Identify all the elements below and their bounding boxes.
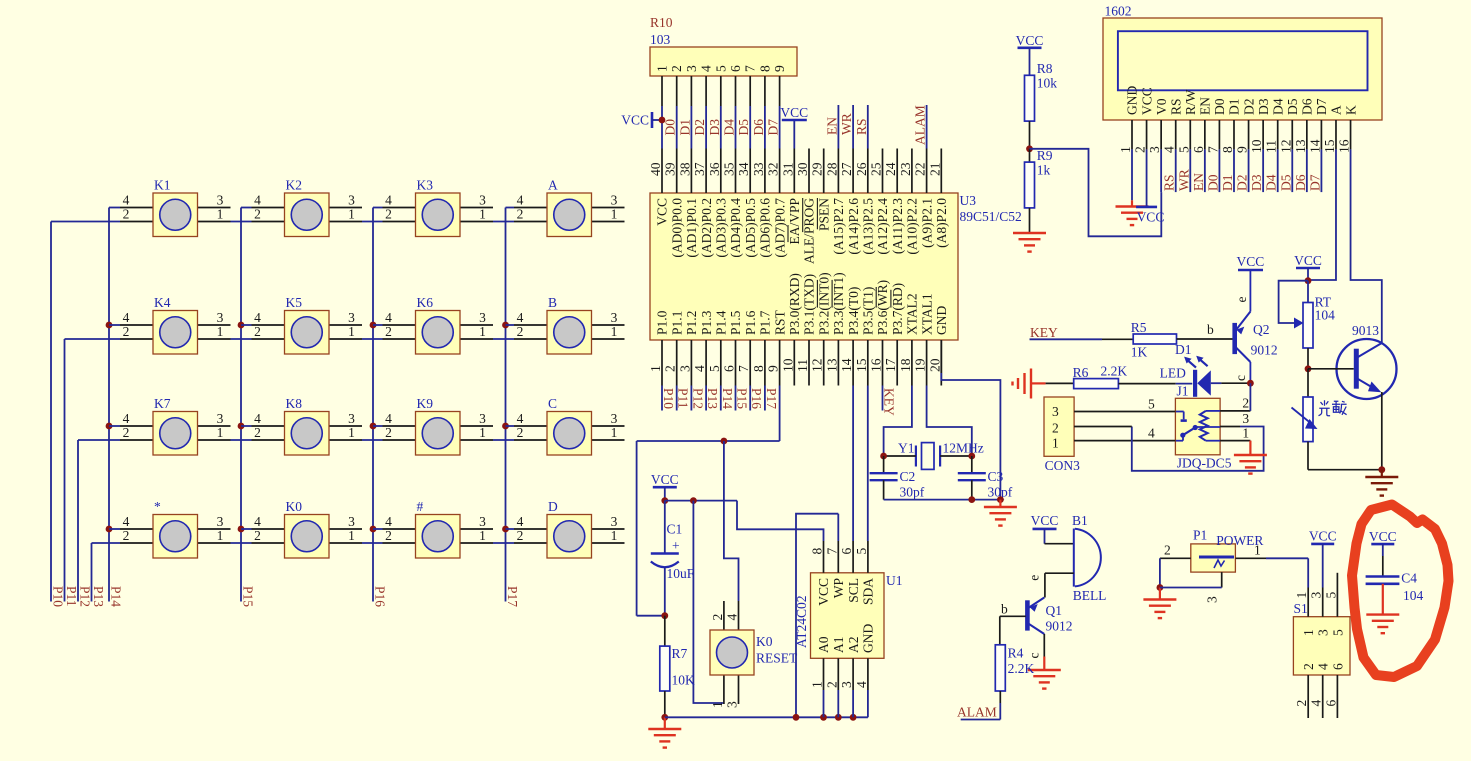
svg-text:S1: S1 xyxy=(1294,601,1308,616)
svg-text:B1: B1 xyxy=(1072,513,1088,528)
svg-text:2: 2 xyxy=(254,425,261,440)
svg-text:P1.4: P1.4 xyxy=(714,310,729,335)
svg-text:K9: K9 xyxy=(417,396,434,411)
svg-text:30pf: 30pf xyxy=(900,485,925,500)
resistor R9 1k xyxy=(1025,148,1053,233)
svg-text:1: 1 xyxy=(1254,543,1261,558)
wire net P14 at U3 pin5 xyxy=(720,386,722,411)
svg-text:D5: D5 xyxy=(736,119,751,136)
wire net P11 vertical xyxy=(64,339,66,602)
svg-text:D4: D4 xyxy=(722,119,737,136)
svg-text:4: 4 xyxy=(854,681,869,688)
wire net P12 vertical xyxy=(77,440,79,602)
U3 top pin 28 P2.7 xyxy=(824,149,846,255)
wire net D6 at 1602 pin13 xyxy=(1306,149,1308,192)
svg-text:D4: D4 xyxy=(1270,98,1285,115)
svg-text:1: 1 xyxy=(479,425,486,440)
svg-text:EN: EN xyxy=(824,117,839,135)
svg-text:3: 3 xyxy=(611,514,618,529)
power VCC (1602 pin2) xyxy=(1136,149,1164,224)
key button B row2 col4 xyxy=(506,295,625,354)
U1 pin 2 A1 xyxy=(824,637,846,691)
resistor R7 10K xyxy=(660,616,695,721)
svg-text:(A13)P2.5: (A13)P2.5 xyxy=(861,198,876,255)
svg-text:8: 8 xyxy=(1220,146,1235,153)
svg-text:D1: D1 xyxy=(1220,175,1235,192)
svg-text:26: 26 xyxy=(854,162,869,176)
U3 top pin 22 P2.1 xyxy=(913,149,935,248)
svg-text:25: 25 xyxy=(869,162,884,176)
wire P1 pin1 to S1 xyxy=(1235,543,1308,588)
relay J1 JDQ-DC5 xyxy=(1175,384,1231,471)
1602 pin 12 D5 xyxy=(1278,98,1300,153)
svg-text:31: 31 xyxy=(780,163,795,177)
wire XTAL2 to Y1 xyxy=(884,386,912,457)
svg-text:4: 4 xyxy=(254,514,261,529)
U3 bottom pin 7 xyxy=(736,310,758,385)
svg-text:(AD7)P0.7: (AD7)P0.7 xyxy=(772,198,787,258)
wire RST to K0 pin4 xyxy=(724,441,739,601)
svg-text:A2: A2 xyxy=(846,637,861,654)
svg-text:10: 10 xyxy=(1249,139,1264,153)
svg-text:4: 4 xyxy=(1162,146,1177,153)
capacitor C3 30pf xyxy=(958,456,1013,500)
1602 pin 4 RS xyxy=(1162,98,1184,153)
svg-text:(A14)P2.6: (A14)P2.6 xyxy=(846,198,861,255)
svg-text:89C51/C52: 89C51/C52 xyxy=(960,209,1022,224)
svg-text:2: 2 xyxy=(517,528,524,543)
svg-text:P3.0(RXD): P3.0(RXD) xyxy=(787,273,802,335)
wire net EN at U3 xyxy=(837,105,839,149)
svg-text:K: K xyxy=(1343,105,1358,115)
svg-text:37: 37 xyxy=(692,162,707,176)
svg-text:P11: P11 xyxy=(676,388,691,409)
svg-text:9: 9 xyxy=(766,365,781,372)
node D0 label xyxy=(663,119,678,136)
svg-text:RS: RS xyxy=(1168,98,1183,115)
svg-text:1: 1 xyxy=(348,425,355,440)
wire SCL U3 pin14 to U1 xyxy=(852,386,854,542)
wire VCC rail to K0/U1 xyxy=(665,497,824,703)
svg-text:5: 5 xyxy=(713,65,728,72)
svg-text:1: 1 xyxy=(1242,426,1249,441)
svg-text:D0: D0 xyxy=(1212,98,1227,115)
svg-text:4: 4 xyxy=(1148,426,1155,441)
wire net ALAM at U3 xyxy=(926,105,928,149)
svg-text:P13: P13 xyxy=(91,586,106,607)
node D1 label xyxy=(677,119,692,136)
svg-text:10K: 10K xyxy=(672,673,696,688)
power VCC (Q2) xyxy=(1237,254,1265,270)
svg-text:3: 3 xyxy=(217,411,224,426)
svg-text:R5: R5 xyxy=(1131,320,1147,335)
svg-text:P14: P14 xyxy=(109,586,124,607)
svg-text:WR: WR xyxy=(839,113,854,135)
svg-text:ALE/PROG: ALE/PROG xyxy=(802,198,817,264)
U3 bottom pin 17 xyxy=(883,283,905,386)
svg-text:b: b xyxy=(1001,602,1008,617)
svg-text:4: 4 xyxy=(385,310,392,325)
svg-text:P16: P16 xyxy=(373,586,388,607)
svg-text:1: 1 xyxy=(611,528,618,543)
svg-text:D0: D0 xyxy=(1205,174,1220,191)
svg-text:P1.5: P1.5 xyxy=(728,310,743,335)
node D5 label xyxy=(736,119,751,136)
svg-text:9012: 9012 xyxy=(1046,619,1073,634)
svg-text:c: c xyxy=(1026,653,1041,659)
wire net P11 at U3 pin2 xyxy=(676,386,678,411)
svg-text:2: 2 xyxy=(1301,663,1316,670)
svg-text:1: 1 xyxy=(611,324,618,339)
svg-text:P15: P15 xyxy=(735,388,750,409)
svg-text:10: 10 xyxy=(780,358,795,372)
svg-text:(AD3)P0.3: (AD3)P0.3 xyxy=(714,198,729,258)
svg-text:P17: P17 xyxy=(505,586,520,607)
svg-text:10k: 10k xyxy=(1037,76,1058,91)
resistor network R10 103 xyxy=(650,15,797,76)
1602 pin 2 VCC xyxy=(1133,87,1155,153)
svg-text:2: 2 xyxy=(1052,421,1059,436)
wire row3 net P12 xyxy=(78,439,625,441)
svg-text:3: 3 xyxy=(217,310,224,325)
svg-text:P1.1: P1.1 xyxy=(669,311,684,335)
svg-text:(AD5)P0.5: (AD5)P0.5 xyxy=(743,198,758,258)
svg-text:13: 13 xyxy=(1293,139,1308,153)
svg-text:VCC: VCC xyxy=(621,113,649,128)
svg-text:#: # xyxy=(417,499,424,514)
svg-text:4: 4 xyxy=(254,310,261,325)
wire D0 bus R10 pin2 to U3 xyxy=(676,76,678,149)
node P12 label (U3) xyxy=(690,388,705,409)
U3 bottom pin 2 xyxy=(663,311,685,386)
svg-text:2: 2 xyxy=(710,614,725,621)
svg-text:V0: V0 xyxy=(1154,98,1169,115)
svg-text:VCC: VCC xyxy=(1016,33,1044,48)
wire D7 bus R10 pin9 to U3 xyxy=(779,76,781,149)
node P13 label xyxy=(91,586,106,607)
svg-text:A1: A1 xyxy=(831,637,846,654)
svg-text:3: 3 xyxy=(611,193,618,208)
wire row1 net P10 xyxy=(51,221,625,223)
wire net WR at U3 xyxy=(852,105,854,149)
svg-text:12: 12 xyxy=(810,359,825,373)
switch P1 POWER xyxy=(1191,528,1264,573)
svg-text:3: 3 xyxy=(348,411,355,426)
svg-text:P3.4(T0): P3.4(T0) xyxy=(846,287,861,335)
svg-text:LED: LED xyxy=(1160,366,1186,381)
svg-text:A: A xyxy=(1329,105,1344,115)
svg-text:D5: D5 xyxy=(1285,98,1300,115)
node EN label (1602) xyxy=(1191,173,1206,191)
capacitor C2 30pf xyxy=(870,456,925,500)
svg-text:+: + xyxy=(672,538,680,553)
svg-text:K7: K7 xyxy=(154,396,171,411)
svg-text:20: 20 xyxy=(927,358,942,372)
svg-text:2: 2 xyxy=(123,528,130,543)
svg-text:11: 11 xyxy=(1264,140,1279,153)
svg-text:8: 8 xyxy=(810,548,825,555)
svg-text:GND: GND xyxy=(861,624,876,653)
svg-text:P10: P10 xyxy=(51,586,66,607)
IC U1 AT24C02 body xyxy=(794,573,903,659)
node RS label (1602) xyxy=(1162,174,1177,191)
svg-text:2: 2 xyxy=(385,324,392,339)
wire net P16 at U3 pin7 xyxy=(749,386,751,411)
svg-text:K8: K8 xyxy=(286,396,303,411)
U3 bottom pin 1 xyxy=(648,310,670,385)
node P17 label xyxy=(505,586,520,607)
svg-text:Q1: Q1 xyxy=(1046,603,1063,618)
svg-text:CON3: CON3 xyxy=(1045,458,1081,473)
svg-text:D5: D5 xyxy=(1278,174,1293,191)
U3 bottom pin 4 xyxy=(692,310,714,385)
svg-text:J1: J1 xyxy=(1177,384,1189,399)
svg-text:24: 24 xyxy=(883,162,898,176)
svg-text:3: 3 xyxy=(684,65,699,72)
svg-text:(A10)P2.2: (A10)P2.2 xyxy=(905,198,920,255)
svg-text:A0: A0 xyxy=(816,636,831,653)
svg-text:7: 7 xyxy=(736,365,751,372)
node D6 label (1602) xyxy=(1293,174,1308,191)
wire net P12 at U3 pin3 xyxy=(690,386,692,411)
wire CON3 pin1 to J1 pin4 xyxy=(1074,426,1175,441)
svg-text:P1.2: P1.2 xyxy=(684,311,699,335)
svg-text:3: 3 xyxy=(839,681,854,688)
svg-text:D7: D7 xyxy=(1314,98,1329,115)
svg-text:1K: 1K xyxy=(1131,345,1148,360)
1602 pin 15 A xyxy=(1322,105,1344,153)
wire P1 pin3 xyxy=(1160,572,1222,603)
svg-text:2: 2 xyxy=(385,528,392,543)
svg-text:VCC: VCC xyxy=(1137,210,1165,225)
svg-text:2: 2 xyxy=(123,207,130,222)
wire net WR at 1602 pin5 xyxy=(1189,149,1191,192)
1602 pin 5 R/W xyxy=(1176,89,1198,153)
svg-text:VCC: VCC xyxy=(780,105,808,120)
svg-text:ALAM: ALAM xyxy=(957,705,997,720)
svg-text:Q2: Q2 xyxy=(1253,322,1270,337)
svg-text:4: 4 xyxy=(725,614,740,621)
svg-text:3: 3 xyxy=(479,310,486,325)
node P14 label (U3) xyxy=(720,388,735,409)
wire net P17 at U3 pin8 xyxy=(764,386,766,411)
wire column net P14 vertical xyxy=(106,208,113,602)
key button K4 row2 col1 xyxy=(109,295,231,354)
svg-text:4: 4 xyxy=(692,365,707,372)
svg-text:8: 8 xyxy=(751,365,766,372)
wire column net P16 vertical xyxy=(370,208,377,602)
node D7 label (1602) xyxy=(1307,174,1322,191)
IC U3 89C51/C52 body xyxy=(650,193,1022,340)
svg-text:KEY: KEY xyxy=(882,388,897,416)
U3 bottom pin 12 xyxy=(810,272,832,385)
U3 top pin 40 VCC xyxy=(648,149,670,226)
power VCC (RT) xyxy=(1294,253,1322,284)
svg-text:34: 34 xyxy=(736,162,751,176)
power VCC (C4) xyxy=(1369,529,1397,577)
svg-text:2: 2 xyxy=(517,207,524,222)
svg-text:P1: P1 xyxy=(1193,528,1207,543)
svg-text:JDQ-DC5: JDQ-DC5 xyxy=(1177,456,1232,471)
svg-text:40: 40 xyxy=(648,162,663,176)
capacitor C4 104 xyxy=(1366,571,1424,615)
svg-text:e: e xyxy=(1234,297,1249,303)
1602 pin 13 D6 xyxy=(1293,98,1315,153)
svg-text:27: 27 xyxy=(839,162,854,176)
svg-text:SCL: SCL xyxy=(846,578,861,603)
crystal Y1 12MHz xyxy=(880,441,984,470)
node P17 label (U3) xyxy=(764,388,779,409)
svg-text:38: 38 xyxy=(677,162,692,176)
svg-text:4: 4 xyxy=(123,411,130,426)
S1 bottom stubs 2 4 6 xyxy=(1294,675,1338,718)
svg-text:1: 1 xyxy=(217,207,224,222)
wire D5 bus R10 pin7 to U3 xyxy=(749,76,751,149)
resistor R8 10k xyxy=(1025,61,1058,152)
key button K1 row1 col1 xyxy=(109,178,231,237)
1602 pin 10 D3 xyxy=(1249,98,1271,153)
wire net P15 at U3 pin6 xyxy=(735,386,737,411)
wire net P13 vertical xyxy=(91,543,93,602)
svg-text:K6: K6 xyxy=(417,295,434,310)
svg-text:21: 21 xyxy=(927,163,942,177)
svg-text:b: b xyxy=(1207,322,1214,337)
node P10 label xyxy=(51,586,66,607)
svg-text:16: 16 xyxy=(869,358,884,372)
svg-text:15: 15 xyxy=(854,358,869,372)
svg-text:P10: P10 xyxy=(661,388,676,409)
power VCC (S1 pin3) xyxy=(1309,529,1337,617)
node P12 label xyxy=(78,586,93,607)
svg-text:4: 4 xyxy=(254,193,261,208)
wire 1602 V0 xyxy=(1160,149,1162,192)
node D1 label (1602) xyxy=(1220,175,1235,192)
svg-text:P3.2(INT0): P3.2(INT0) xyxy=(816,272,831,335)
wire VCC to R10 pin1 / U3 pin40 xyxy=(661,76,663,149)
svg-text:VCC: VCC xyxy=(1294,253,1322,268)
wire J1 pin3 to CON3 pin2 (loop below) xyxy=(1074,411,1264,471)
svg-text:2: 2 xyxy=(517,425,524,440)
S1 pin1 stub xyxy=(1294,588,1309,617)
svg-text:P12: P12 xyxy=(690,388,705,409)
LCD module 1602 body xyxy=(1103,4,1382,121)
svg-text:D7: D7 xyxy=(1307,174,1322,191)
connector S1 body xyxy=(1293,601,1350,675)
wire net RS at 1602 pin4 xyxy=(1175,149,1177,192)
node P11 label (U3) xyxy=(676,388,691,409)
transistor 9013 NPN xyxy=(1308,323,1397,470)
1602 pin 7 D0 xyxy=(1205,98,1227,153)
svg-text:1: 1 xyxy=(348,324,355,339)
svg-text:(A8)P2.0: (A8)P2.0 xyxy=(934,198,949,248)
svg-text:9013: 9013 xyxy=(1352,323,1379,338)
svg-text:3: 3 xyxy=(1147,146,1162,153)
svg-text:P13: P13 xyxy=(705,388,720,409)
wire RST net xyxy=(637,386,780,616)
node D4 label xyxy=(722,119,737,136)
svg-text:1: 1 xyxy=(611,207,618,222)
photoresistor 光敏 xyxy=(1292,369,1386,473)
key button K9 row3 col3 xyxy=(373,396,493,455)
svg-text:3: 3 xyxy=(348,514,355,529)
wire column net P17 vertical xyxy=(502,208,509,602)
svg-text:*: * xyxy=(154,499,161,514)
key button K2 row1 col2 xyxy=(241,178,362,237)
svg-text:3: 3 xyxy=(1316,629,1331,636)
svg-text:D3: D3 xyxy=(1256,98,1271,115)
wire net D2 at 1602 pin9 xyxy=(1248,149,1250,192)
1602 pin 16 K xyxy=(1337,105,1359,153)
node P10 label (U3) xyxy=(661,388,676,409)
node D6 label xyxy=(751,119,766,136)
svg-text:1: 1 xyxy=(479,528,486,543)
wire J1 pin2 to Q2 collector xyxy=(1220,383,1250,411)
node D3 label xyxy=(707,119,722,136)
svg-text:30: 30 xyxy=(795,162,810,176)
svg-text:5: 5 xyxy=(1176,146,1191,153)
svg-text:12: 12 xyxy=(1278,140,1293,154)
S1 pin5 stub xyxy=(1323,573,1338,617)
wire XTAL1 to Y1 xyxy=(927,386,972,457)
svg-text:K1: K1 xyxy=(154,178,171,193)
ground (C4) xyxy=(1366,615,1399,634)
svg-text:VCC: VCC xyxy=(1237,254,1265,269)
svg-text:4: 4 xyxy=(254,411,261,426)
power VCC (B1) xyxy=(1031,513,1074,544)
svg-text:2: 2 xyxy=(1164,543,1171,558)
ground (J1) xyxy=(1234,455,1267,474)
wire SDA U3 pin15 to U1 xyxy=(867,386,869,542)
svg-text:1k: 1k xyxy=(1037,163,1051,178)
svg-text:4: 4 xyxy=(1316,663,1331,670)
svg-text:D2: D2 xyxy=(692,119,707,136)
svg-text:D0: D0 xyxy=(663,119,678,136)
svg-text:3: 3 xyxy=(479,193,486,208)
svg-text:D1: D1 xyxy=(677,119,692,136)
svg-text:35: 35 xyxy=(722,162,737,176)
power VCC (reset circuit) xyxy=(651,472,679,504)
svg-text:D6: D6 xyxy=(751,119,766,136)
svg-text:(A9)P2.1: (A9)P2.1 xyxy=(919,198,934,248)
svg-text:D1: D1 xyxy=(1227,99,1242,116)
svg-text:3: 3 xyxy=(677,365,692,372)
wire 1602 K to 9013 collector xyxy=(1351,149,1382,343)
svg-text:D6: D6 xyxy=(1293,174,1308,191)
svg-text:P3.5(T1): P3.5(T1) xyxy=(861,287,876,335)
U3 top pin 31 EA/VPP xyxy=(780,149,802,245)
svg-text:c: c xyxy=(1233,375,1248,381)
svg-text:D6: D6 xyxy=(1300,98,1315,115)
node ALAM label xyxy=(913,105,928,145)
svg-text:2: 2 xyxy=(385,207,392,222)
node D2 label xyxy=(692,119,707,136)
resistor R6 2.2K xyxy=(1046,364,1193,389)
wire U1 WP to ground bus xyxy=(796,514,838,718)
svg-text:12MHz: 12MHz xyxy=(943,441,984,456)
ground (crystal) xyxy=(984,500,1017,526)
node ALAM label xyxy=(957,705,1000,720)
U3 top pin 36 P0.3 xyxy=(707,149,729,258)
power VCC (left of R10) xyxy=(621,112,665,128)
svg-text:14: 14 xyxy=(1307,139,1322,153)
svg-text:4: 4 xyxy=(385,514,392,529)
svg-text:15: 15 xyxy=(1322,139,1337,153)
U3 top pin 27 P2.6 xyxy=(839,149,861,255)
svg-text:D3: D3 xyxy=(1249,174,1264,191)
svg-text:4: 4 xyxy=(123,514,130,529)
svg-text:1: 1 xyxy=(479,324,486,339)
svg-text:13: 13 xyxy=(824,358,839,372)
